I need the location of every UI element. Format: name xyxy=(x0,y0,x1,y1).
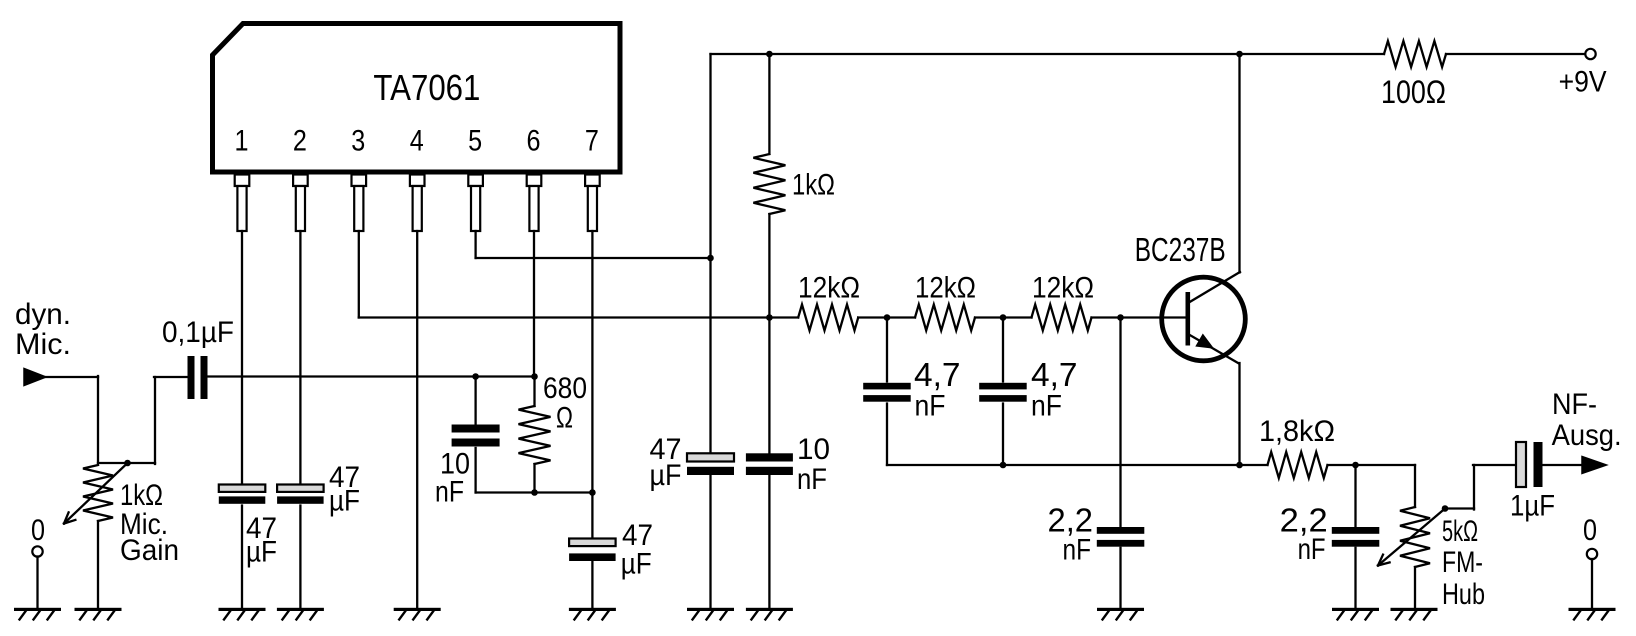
svg-text:FM-: FM- xyxy=(1442,546,1483,579)
svg-text:4: 4 xyxy=(410,125,424,158)
wire R5 to R6 xyxy=(975,316,1032,318)
output arrow NF-Ausg. xyxy=(1582,457,1607,474)
wire 0-right to ground xyxy=(1591,559,1593,608)
ground C11 xyxy=(1097,608,1144,611)
wire emitter down xyxy=(1238,363,1240,465)
wire pin2 down xyxy=(299,231,301,485)
node return/cap2 junction xyxy=(1000,462,1007,469)
svg-text:Hub: Hub xyxy=(1442,578,1485,611)
wire 4.7nF-2 top lead xyxy=(1002,318,1004,382)
ground C3 xyxy=(277,608,324,611)
capacitor C10 4.7nF xyxy=(979,383,1026,390)
transistor Q1 collector stroke xyxy=(1188,272,1240,303)
capacitor C3 47uF xyxy=(277,485,324,492)
wire C3 to ground xyxy=(299,506,301,609)
svg-text:1µF: 1µF xyxy=(1510,490,1555,523)
wire pin5 right xyxy=(476,257,711,259)
potentiometer P1 1k element xyxy=(83,465,113,521)
svg-text:BC237B: BC237B xyxy=(1135,231,1226,268)
svg-text:0: 0 xyxy=(1583,514,1597,547)
wire up to C1 xyxy=(154,377,156,464)
capacitor C4 10nF xyxy=(452,425,500,433)
wire pin6 down xyxy=(533,231,535,377)
node P2 wiper junction xyxy=(1442,505,1449,512)
potentiometer P2 wiper arrow xyxy=(1378,509,1445,566)
svg-text:dyn.: dyn. xyxy=(15,298,71,331)
transistor Q1 emitter arrow xyxy=(1197,335,1212,347)
svg-text:2: 2 xyxy=(293,125,307,158)
svg-text:NF-: NF- xyxy=(1552,388,1597,421)
svg-text:nF: nF xyxy=(435,476,464,509)
node 10nF tap xyxy=(472,373,479,380)
svg-text:4,7: 4,7 xyxy=(914,356,961,393)
wire 10nF bottom lead xyxy=(474,448,476,493)
capacitor C9 4.7nF xyxy=(863,383,911,390)
svg-text:0,1µF: 0,1µF xyxy=(162,316,234,349)
terminal +9V xyxy=(1585,49,1595,59)
wire pin3 to bias node xyxy=(359,316,770,318)
wire pin3 down xyxy=(358,231,360,318)
capacitor C11 2.2nF xyxy=(1097,527,1145,534)
wire pin5 down xyxy=(474,231,476,258)
IC pin 7 stub xyxy=(585,175,600,187)
node pin6/680 junction xyxy=(531,373,538,380)
wire pin4 to ground xyxy=(416,231,418,608)
svg-text:10: 10 xyxy=(797,433,830,466)
svg-text:0: 0 xyxy=(31,514,45,547)
svg-text:TA7061: TA7061 xyxy=(373,67,480,108)
svg-text:100Ω: 100Ω xyxy=(1381,74,1446,110)
wire 2.2nF-out down xyxy=(1354,465,1356,527)
wire to C1 left xyxy=(154,376,189,378)
resistor R8 1.8k lead-in xyxy=(1240,464,1268,466)
node output RC junction xyxy=(1352,462,1359,469)
svg-text:7: 7 xyxy=(585,125,599,158)
svg-text:5: 5 xyxy=(468,125,482,158)
input arrow dyn. Mic. xyxy=(24,369,46,386)
wire 0-terminal to ground xyxy=(36,557,38,609)
IC pin 2 stub xyxy=(293,175,308,187)
wire C12 to ground xyxy=(1354,548,1356,608)
svg-text:1kΩ: 1kΩ xyxy=(792,169,835,202)
wire C8 to ground xyxy=(768,475,770,608)
svg-text:+9V: +9V xyxy=(1559,66,1607,99)
wire feedback bottom line xyxy=(476,491,593,493)
svg-text:Mic.: Mic. xyxy=(15,328,71,361)
IC pin 1 stub xyxy=(235,175,250,187)
ground pot xyxy=(75,608,122,611)
wire 2.2nF-base down xyxy=(1119,318,1121,528)
node emitter junction xyxy=(1236,462,1243,469)
svg-text:1,8kΩ: 1,8kΩ xyxy=(1259,415,1335,448)
wire to C13 xyxy=(1473,464,1516,466)
svg-text:3: 3 xyxy=(351,125,365,158)
resistor R8 1.8k xyxy=(1268,452,1328,478)
node 680 bottom junction xyxy=(531,489,538,496)
potentiometer P1 wiper arrow xyxy=(64,463,128,524)
wire 1k top lead xyxy=(768,54,770,154)
capacitor C8 10nF xyxy=(746,453,793,461)
ground 0-right xyxy=(1569,608,1616,611)
wire 1k bottom lead xyxy=(768,214,770,454)
svg-text:Ausg.: Ausg. xyxy=(1552,419,1622,452)
capacitor C1 0.1uF xyxy=(188,356,195,399)
wire wiper right xyxy=(1445,507,1474,509)
node 1k top junction xyxy=(766,51,773,58)
transistor Q1 base bar xyxy=(1186,292,1191,346)
svg-text:6: 6 xyxy=(527,125,541,158)
wire rail to +9V xyxy=(1446,53,1586,55)
wire pin7 down xyxy=(591,231,593,539)
wire input to corner xyxy=(45,376,98,378)
wire rail left segment xyxy=(711,53,1385,55)
resistor R4 12k xyxy=(798,305,858,331)
capacitor C2 47uF xyxy=(219,485,265,492)
node pin7 feedback junction xyxy=(589,489,596,496)
ground C6 xyxy=(569,608,616,611)
capacitor C7 47uF xyxy=(687,453,734,461)
svg-text:5kΩ: 5kΩ xyxy=(1442,515,1478,548)
resistor R5 12k xyxy=(915,305,975,331)
transistor Q1 emitter stroke xyxy=(1188,334,1239,364)
svg-text:µF: µF xyxy=(329,485,360,518)
wire 680 top lead xyxy=(533,377,535,407)
IC U1 TA7061 body xyxy=(213,24,621,173)
node pin5/rail-column junction xyxy=(707,255,714,262)
wire C1 to pin6 node xyxy=(208,375,535,377)
wire 680 bottom lead xyxy=(533,464,535,493)
resistor R2 680 xyxy=(519,406,551,464)
wire C2 to ground xyxy=(241,506,243,609)
wire R8 to pot xyxy=(1328,464,1416,466)
node pot wiper junction xyxy=(124,460,131,467)
node collector rail junction xyxy=(1236,51,1243,58)
wire R4 to R5 xyxy=(858,316,915,318)
svg-text:680: 680 xyxy=(543,372,587,405)
svg-text:12kΩ: 12kΩ xyxy=(798,272,860,305)
wire 4.7nF-1 bottom lead xyxy=(886,404,888,466)
svg-text:nF: nF xyxy=(1063,534,1092,567)
ground C8 xyxy=(746,608,793,611)
wire phase return line xyxy=(887,464,1240,466)
capacitor C6 47uF (pin7) xyxy=(569,539,616,547)
wire pin1 down xyxy=(241,231,243,485)
wire C13 to output arrow xyxy=(1543,464,1585,466)
svg-text:nF: nF xyxy=(1031,390,1062,423)
wire bias to R4 xyxy=(769,316,798,318)
wire 4.7nF-1 top lead xyxy=(886,318,888,382)
resistor R6 12k xyxy=(1032,305,1092,331)
ground pin4 xyxy=(394,608,441,611)
IC pin 6 stub xyxy=(527,175,542,187)
IC pin 5 stub xyxy=(468,175,483,187)
wire collector up xyxy=(1238,54,1240,273)
wire column down to 47uF xyxy=(709,54,711,454)
svg-text:µF: µF xyxy=(621,548,652,581)
wire P2 to ground xyxy=(1414,567,1416,608)
potentiometer P2 5k element xyxy=(1400,507,1430,567)
IC pin 4 stub xyxy=(410,175,425,187)
svg-text:12kΩ: 12kΩ xyxy=(915,272,976,305)
wire pot5k top lead xyxy=(1414,465,1416,507)
resistor R3 1k xyxy=(753,154,785,214)
svg-text:nF: nF xyxy=(1298,533,1326,566)
svg-text:12kΩ: 12kΩ xyxy=(1032,272,1094,305)
ground 0-terminal left xyxy=(14,608,61,611)
terminal 0 right xyxy=(1587,549,1597,559)
ground C7 xyxy=(687,608,734,611)
svg-text:µF: µF xyxy=(650,459,682,492)
svg-text:Ω: Ω xyxy=(556,402,573,435)
capacitor C13 1uF xyxy=(1516,442,1526,487)
node phase node 2 xyxy=(1000,314,1007,321)
ground P2 xyxy=(1391,608,1438,611)
wire 4.7nF-2 bottom lead xyxy=(1002,404,1004,466)
capacitor C12 2.2nF xyxy=(1332,527,1380,534)
svg-text:Gain: Gain xyxy=(120,534,179,567)
node bias junction xyxy=(766,314,773,321)
wire C6 to ground xyxy=(591,561,593,608)
wire 10nF top lead xyxy=(474,377,476,425)
resistor R7 100 xyxy=(1384,41,1446,67)
svg-text:nF: nF xyxy=(915,390,946,423)
wire C11 to ground xyxy=(1119,548,1121,608)
svg-text:4,7: 4,7 xyxy=(1031,356,1078,393)
node base junction xyxy=(1117,314,1124,321)
ground C12 xyxy=(1332,608,1379,611)
wire input down xyxy=(97,376,99,463)
svg-text:nF: nF xyxy=(797,463,827,496)
svg-text:1: 1 xyxy=(235,125,249,158)
wire R6 to base xyxy=(1092,316,1186,318)
wire pot to ground xyxy=(97,521,99,608)
svg-text:µF: µF xyxy=(246,536,277,569)
wire pot top segment xyxy=(98,462,155,464)
IC pin 3 stub xyxy=(352,175,367,187)
wire wiper up xyxy=(1473,465,1475,510)
node phase node 1 xyxy=(884,314,891,321)
wire C7 to ground xyxy=(709,475,711,608)
ground C2 xyxy=(219,608,266,611)
transistor Q1 circle xyxy=(1162,277,1246,361)
terminal 0 left xyxy=(32,546,42,556)
